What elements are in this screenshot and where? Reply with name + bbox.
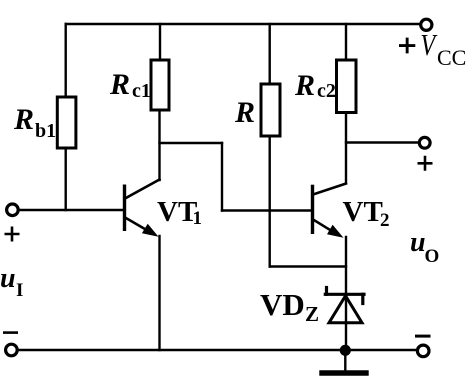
resistor Rc1	[151, 60, 169, 110]
wire VT1 emitter down	[158, 236, 160, 350]
label plus input	[5, 227, 20, 242]
svg-text:R: R	[294, 69, 315, 102]
label VT2	[343, 196, 390, 231]
svg-text:c2: c2	[317, 80, 336, 102]
resistor Rc2	[337, 60, 357, 113]
wire node Rc1 to link horizontal	[160, 142, 223, 144]
svg-text:VT: VT	[343, 196, 383, 228]
wire VT2 emitter down	[345, 237, 347, 323]
label minus input	[3, 331, 18, 334]
svg-text:VT: VT	[157, 196, 197, 228]
svg-text:1: 1	[193, 208, 203, 229]
wire link to VT2 base	[222, 209, 311, 211]
transistor VT1	[123, 180, 160, 237]
label uI	[0, 263, 23, 301]
terminal input plus	[7, 204, 19, 216]
label plus output	[418, 156, 433, 171]
label VT1	[157, 196, 202, 229]
wire R top	[269, 24, 271, 84]
svg-text:c1: c1	[132, 80, 151, 102]
svg-text:2: 2	[380, 210, 390, 231]
svg-text:u: u	[0, 263, 16, 294]
terminal output minus	[417, 345, 429, 357]
wire R to VT2 emitter node	[270, 265, 346, 267]
wire Rc1 to VT1 collector	[158, 110, 160, 180]
label Rc1	[109, 68, 151, 102]
wire Rb1 bottom	[64, 148, 66, 210]
wire to output plus terminal	[346, 141, 418, 143]
transistor VT2	[311, 184, 346, 238]
wire R bottom	[269, 136, 271, 267]
svg-text:O: O	[425, 246, 440, 267]
svg-text:CC: CC	[437, 45, 466, 70]
ground	[322, 350, 366, 373]
svg-text:VD: VD	[260, 287, 305, 322]
label VDz	[260, 287, 319, 326]
wire bottom rail	[19, 349, 417, 351]
wire Rb1 top	[64, 24, 66, 97]
svg-text:I: I	[16, 280, 23, 301]
wire Rc2 to VT2 collector	[345, 113, 347, 184]
wire VDz to bottom rail	[345, 323, 347, 350]
wire input	[20, 209, 123, 211]
label R	[234, 96, 255, 129]
terminal output plus	[419, 137, 430, 148]
label minus output	[415, 335, 431, 338]
label Rc2	[294, 69, 336, 102]
svg-text:b1: b1	[35, 120, 56, 142]
svg-text:R: R	[234, 96, 255, 129]
svg-text:Z: Z	[305, 302, 319, 326]
label uO	[410, 227, 439, 267]
wire Rc1 top	[159, 24, 161, 60]
terminal +Vcc	[421, 19, 432, 30]
wire Rc2 top	[345, 24, 347, 60]
svg-text:V: V	[420, 28, 437, 63]
zener diode VDz	[325, 288, 364, 323]
label +Vcc	[399, 28, 466, 70]
svg-text:R: R	[13, 103, 34, 136]
resistor Rb1	[57, 97, 76, 148]
svg-text:R: R	[109, 68, 130, 101]
wire top power rail	[66, 23, 420, 25]
wire link vertical	[221, 143, 223, 211]
junction dot	[340, 345, 351, 356]
svg-text:u: u	[410, 227, 426, 258]
terminal input minus	[6, 344, 18, 356]
resistor R	[261, 84, 280, 136]
label Rb1	[13, 103, 56, 142]
